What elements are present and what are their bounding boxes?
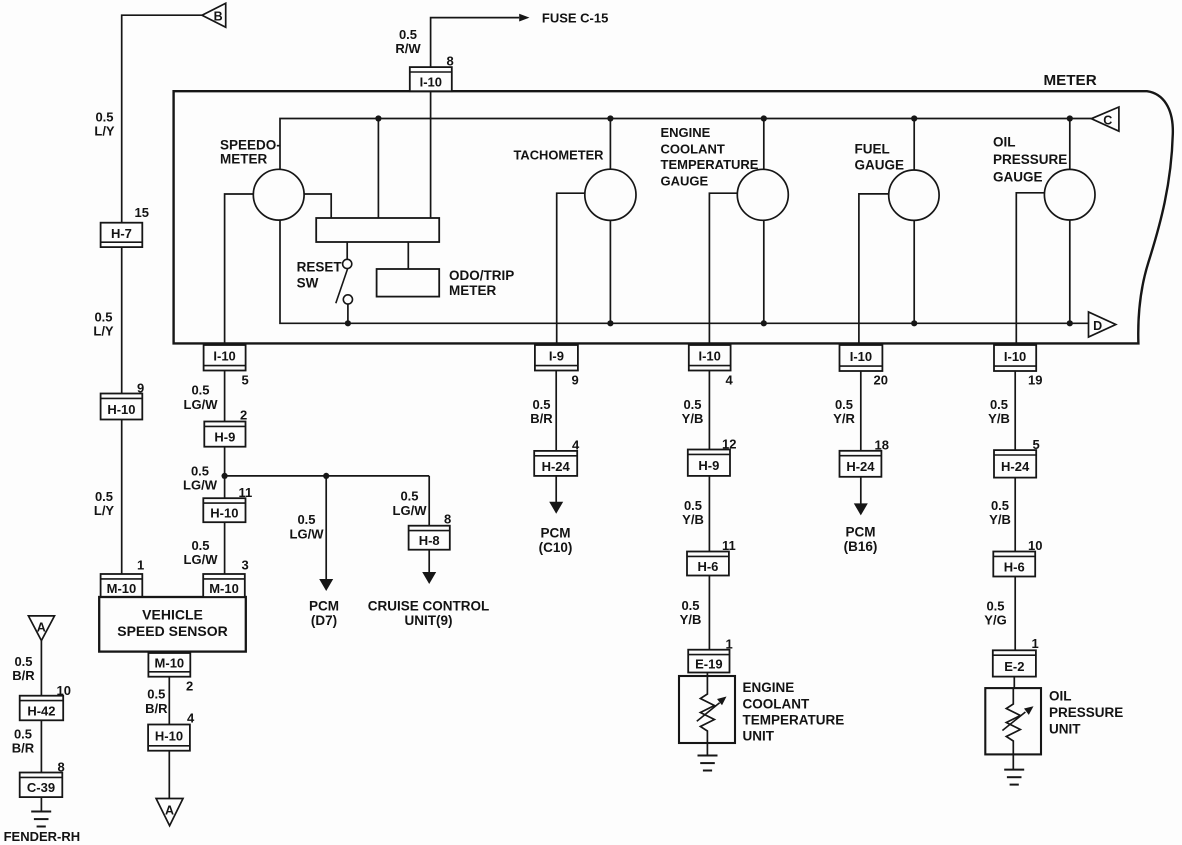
connector H-10 (pin 9)	[101, 394, 143, 420]
wire oil gauge left to I-10 pin 19	[1016, 193, 1044, 345]
svg-text:B/R: B/R	[12, 668, 35, 683]
svg-text:ENGINE: ENGINE	[661, 125, 711, 140]
wire label 0.5 B/R	[12, 654, 35, 683]
wire label 0.5 R/W	[395, 27, 421, 56]
connector I-9 (pin 9)	[535, 345, 578, 371]
arrowhead to PCM (C10)	[549, 502, 563, 514]
arrowhead to cruise control unit	[422, 572, 436, 584]
wire I-10 pin 8 into meter	[430, 91, 432, 218]
svg-text:M-10: M-10	[209, 581, 239, 596]
svg-text:H-42: H-42	[27, 703, 55, 718]
wire label 0.5 Y/B	[682, 498, 704, 527]
wire label 0.5 Y/B	[682, 397, 704, 426]
junction dot bottom bus / tachometer	[607, 320, 613, 326]
wire H-10 pin4 to triangle A	[168, 751, 170, 799]
svg-text:0.5: 0.5	[683, 397, 701, 412]
svg-text:LG/W: LG/W	[290, 526, 325, 541]
wire label 0.5 L/Y	[94, 489, 115, 518]
svg-text:OIL: OIL	[1049, 688, 1072, 703]
arrowhead to FUSE C-15	[519, 14, 529, 22]
label OIL PRESSURE UNIT	[1049, 688, 1123, 736]
svg-text:SW: SW	[297, 275, 319, 290]
svg-text:FUEL: FUEL	[855, 141, 890, 156]
svg-text:LG/W: LG/W	[183, 478, 218, 493]
svg-text:9: 9	[572, 372, 579, 387]
meter drive unit box	[316, 218, 439, 242]
engine coolant temperature unit box	[679, 676, 735, 743]
junction dot bottom bus / fuel gauge	[911, 320, 917, 326]
svg-text:1: 1	[1032, 636, 1039, 651]
wire top bus to drive unit	[377, 119, 379, 219]
svg-text:0.5: 0.5	[532, 397, 550, 412]
svg-text:1: 1	[137, 558, 144, 573]
svg-text:0.5: 0.5	[297, 512, 315, 527]
svg-text:LG/W: LG/W	[184, 552, 219, 567]
svg-text:0.5: 0.5	[191, 463, 209, 478]
wire speedometer left to I-10 pin 5	[225, 194, 254, 345]
svg-text:C: C	[1103, 114, 1112, 128]
svg-text:0.5: 0.5	[684, 498, 702, 513]
speedometer gauge	[253, 169, 304, 220]
wire H-24 to PCM (C10)	[555, 476, 557, 502]
svg-text:0.5: 0.5	[399, 27, 417, 42]
wire label 0.5 B/R	[12, 726, 35, 755]
wire label 0.5 LG/W	[393, 489, 428, 518]
svg-text:ENGINE: ENGINE	[743, 680, 795, 695]
svg-text:15: 15	[135, 205, 149, 220]
junction dot PCM branch	[323, 473, 329, 479]
svg-text:(C10): (C10)	[539, 540, 573, 555]
thermistor (oil pressure sender)	[1002, 688, 1033, 770]
svg-text:A: A	[165, 804, 174, 818]
wire H-6 to E-2	[1014, 577, 1016, 651]
svg-text:3: 3	[242, 558, 249, 573]
wire label 0.5 Y/R	[833, 397, 855, 426]
svg-text:H-24: H-24	[542, 459, 571, 474]
svg-text:I-10: I-10	[1004, 349, 1026, 364]
svg-text:SPEED SENSOR: SPEED SENSOR	[117, 623, 227, 639]
label SPEEDO-METER	[220, 137, 281, 166]
connector H-24 (pin 18)	[840, 451, 882, 477]
wire label 0.5 L/Y	[94, 110, 115, 139]
svg-text:0.5: 0.5	[191, 538, 209, 553]
engine coolant temperature gauge	[737, 169, 788, 220]
wire label 0.5 Y/G	[984, 599, 1006, 628]
connector H-10 (pin 11)	[203, 498, 245, 522]
junction dot top bus / meter drive	[375, 115, 381, 121]
svg-text:METER: METER	[1044, 72, 1097, 89]
svg-text:2: 2	[240, 407, 247, 422]
svg-text:TEMPERATURE: TEMPERATURE	[661, 157, 759, 172]
svg-text:L/Y: L/Y	[93, 324, 114, 339]
svg-text:LG/W: LG/W	[393, 503, 428, 518]
connector I-10 (pin 5)	[204, 345, 246, 371]
svg-text:0.5: 0.5	[95, 489, 113, 504]
svg-text:FUSE C-15: FUSE C-15	[542, 11, 608, 26]
connector C-39 (pin 8)	[20, 773, 63, 798]
svg-text:H-6: H-6	[1004, 559, 1025, 574]
svg-text:H-9: H-9	[214, 429, 235, 444]
wire label 0.5 Y/B	[988, 397, 1010, 426]
label OIL PRESSURE GAUGE	[993, 134, 1067, 184]
svg-text:B: B	[214, 10, 223, 24]
svg-text:I-10: I-10	[420, 75, 442, 90]
connector I-10 (pin 4)	[689, 345, 731, 371]
junction dot bottom bus / oil gauge	[1067, 320, 1073, 326]
svg-text:I-10: I-10	[698, 349, 720, 364]
svg-text:ODO/TRIP: ODO/TRIP	[449, 268, 514, 283]
wire fuel gauge to bottom bus	[913, 220, 915, 323]
svg-text:Y/B: Y/B	[682, 411, 704, 426]
connector H-9 (pin 12)	[688, 450, 730, 476]
svg-text:GAUGE: GAUGE	[993, 169, 1043, 184]
svg-text:H-9: H-9	[698, 458, 719, 473]
svg-text:2: 2	[186, 679, 193, 694]
label RESET SW	[297, 259, 343, 290]
wire drive unit to odo/trip meter	[407, 242, 409, 269]
svg-text:4: 4	[726, 372, 734, 387]
svg-text:H-6: H-6	[697, 559, 718, 574]
junction dot speed signal	[222, 473, 228, 479]
wire junction to H-10 pin 11	[224, 476, 226, 498]
svg-text:Y/R: Y/R	[833, 411, 855, 426]
svg-text:RESET: RESET	[297, 259, 343, 274]
triangle A (to fender ground)	[156, 799, 183, 826]
svg-text:PCM: PCM	[541, 526, 571, 541]
wire top bus to oil gauge	[1069, 119, 1071, 170]
ground coolant temperature unit	[698, 756, 718, 771]
svg-text:0.5: 0.5	[14, 726, 32, 741]
svg-text:Y/B: Y/B	[680, 612, 702, 627]
wire coolant gauge left to I-10 pin 4	[709, 193, 737, 345]
junction dot bottom bus / reset sw	[345, 320, 351, 326]
wire C-39 to ground	[40, 797, 42, 811]
connector M-10 (pin 2)	[148, 653, 190, 677]
wire label 0.5 LG/W	[290, 512, 325, 541]
svg-text:0.5: 0.5	[835, 397, 853, 412]
svg-text:M-10: M-10	[155, 656, 185, 671]
svg-text:20: 20	[874, 372, 888, 387]
wire H-24 to PCM (B16)	[860, 477, 862, 504]
connector M-10 (pin 3)	[203, 574, 245, 597]
junction dot bottom bus / coolant gauge	[761, 320, 767, 326]
svg-text:B/R: B/R	[12, 741, 35, 756]
svg-text:COOLANT: COOLANT	[661, 141, 725, 156]
svg-text:METER: METER	[449, 283, 497, 298]
svg-text:H-10: H-10	[210, 506, 238, 521]
svg-text:0.5: 0.5	[95, 110, 113, 125]
svg-text:0.5: 0.5	[986, 599, 1004, 614]
svg-text:PCM: PCM	[846, 525, 876, 540]
ground FENDER-RH	[31, 812, 51, 827]
connector I-10 (pin 19)	[994, 345, 1036, 371]
wire I-10 pin19 to H-24 pin5	[1014, 371, 1016, 450]
svg-text:E-2: E-2	[1004, 659, 1024, 674]
wire H-8 to cruise control unit	[428, 550, 430, 573]
wire B to H-7	[122, 15, 202, 223]
fuel gauge	[889, 170, 939, 220]
svg-text:0.5: 0.5	[14, 654, 32, 669]
svg-text:TEMPERATURE: TEMPERATURE	[743, 713, 845, 728]
wire A to H-42	[40, 641, 42, 696]
wire label 0.5 L/Y	[93, 309, 114, 338]
svg-text:PCM: PCM	[309, 599, 339, 614]
svg-text:I-10: I-10	[213, 349, 235, 364]
wire H-10 to M-10 pin 3	[224, 522, 226, 574]
wire top bus to coolant gauge	[763, 119, 765, 170]
label FUEL GAUGE	[855, 141, 905, 172]
wire I-9 to H-24	[555, 371, 557, 451]
wire H-6 to E-19	[708, 576, 710, 650]
svg-text:H-10: H-10	[107, 402, 135, 417]
wire top bus	[280, 119, 1091, 170]
arrowhead to PCM (D7)	[319, 579, 333, 591]
svg-text:0.5: 0.5	[147, 687, 165, 702]
svg-text:VEHICLE: VEHICLE	[142, 607, 203, 623]
wire H-10 to M-10	[121, 420, 123, 575]
svg-text:0.5: 0.5	[681, 598, 699, 613]
svg-text:Y/B: Y/B	[989, 512, 1011, 527]
wire H-24 to H-6 pin10	[1014, 478, 1016, 552]
wire M-10 pin2 to H-10 pin4	[168, 677, 170, 725]
svg-text:UNIT(9): UNIT(9)	[405, 613, 453, 628]
svg-text:Y/B: Y/B	[682, 512, 704, 527]
wire reset switch to bottom bus	[347, 304, 349, 323]
svg-text:CRUISE CONTROL: CRUISE CONTROL	[368, 599, 490, 614]
svg-text:19: 19	[1028, 372, 1042, 387]
wire I-10 pin4 to H-9 pin12	[708, 371, 710, 450]
wire oil gauge to bottom bus	[1069, 220, 1071, 323]
svg-text:L/Y: L/Y	[94, 124, 115, 139]
wire H-42 to C-39	[40, 720, 42, 772]
wire tachometer left to I-9 pin 9	[557, 193, 585, 345]
svg-text:UNIT: UNIT	[743, 728, 775, 743]
oil pressure gauge	[1044, 169, 1095, 220]
connector E-2 (pin 1)	[993, 650, 1036, 676]
svg-text:TACHOMETER: TACHOMETER	[514, 148, 605, 163]
wire label 0.5 B/R	[530, 397, 553, 426]
svg-text:4: 4	[187, 710, 195, 725]
oil pressure unit box	[985, 688, 1041, 754]
svg-text:H-24: H-24	[1001, 459, 1030, 474]
wire label 0.5 Y/B	[989, 498, 1011, 527]
svg-text:LG/W: LG/W	[184, 397, 219, 412]
wire top bus to fuel gauge	[913, 119, 915, 171]
svg-text:H-10: H-10	[155, 728, 183, 743]
svg-text:0.5: 0.5	[191, 383, 209, 398]
label ENGINE COOLANT TEMPERATURE UNIT	[743, 680, 845, 743]
wire label 0.5 LG/W	[184, 538, 219, 567]
svg-text:R/W: R/W	[395, 41, 421, 56]
svg-text:E-19: E-19	[695, 656, 722, 671]
svg-text:M-10: M-10	[107, 581, 137, 596]
wire label 0.5 B/R	[145, 687, 168, 716]
svg-text:0.5: 0.5	[94, 309, 112, 324]
svg-text:H-24: H-24	[846, 459, 875, 474]
svg-text:H-7: H-7	[111, 226, 132, 241]
wire label 0.5 Y/B	[680, 598, 702, 627]
wire I-10 pin20 to H-24 pin18	[860, 371, 862, 451]
wire I-10 pin 8 up to fuse branch	[431, 18, 520, 68]
wire H-7 to H-10	[121, 247, 123, 393]
connector H-6 (pin 10)	[993, 552, 1035, 577]
wire fuel gauge left to I-10 pin 20	[859, 194, 889, 345]
arrowhead to PCM (B16)	[854, 503, 868, 515]
connector triangle B	[202, 3, 226, 27]
label PCM (D7)	[309, 599, 339, 629]
svg-text:(B16): (B16)	[844, 539, 878, 554]
connector H-24 (pin 5)	[994, 450, 1036, 478]
svg-text:8: 8	[444, 512, 451, 527]
connector I-10 (pin 8)	[410, 67, 452, 91]
meter box outline	[174, 91, 1173, 343]
svg-text:(D7): (D7)	[311, 613, 337, 628]
wire coolant gauge to bottom bus	[763, 220, 765, 323]
svg-text:0.5: 0.5	[400, 489, 418, 504]
wire junction to cruise branch	[225, 475, 430, 477]
svg-text:COOLANT: COOLANT	[743, 696, 810, 711]
connector H-7	[101, 223, 143, 247]
wire to H-8	[428, 476, 430, 526]
triangle C	[1091, 107, 1119, 131]
svg-text:I-10: I-10	[850, 349, 872, 364]
svg-text:GAUGE: GAUGE	[661, 173, 709, 188]
triangle A (from speed sensor)	[28, 616, 54, 641]
connector M-10 (pin 1)	[101, 574, 143, 597]
label PCM (C10)	[539, 526, 573, 556]
junction dot top bus / coolant gauge	[761, 115, 767, 121]
svg-text:L/Y: L/Y	[94, 503, 115, 518]
wire speedometer right to drive unit	[304, 194, 331, 218]
wire H-9 to junction	[224, 447, 226, 476]
odo/trip meter box	[377, 269, 440, 297]
svg-text:PRESSURE: PRESSURE	[1049, 705, 1123, 720]
svg-text:H-8: H-8	[419, 533, 440, 548]
svg-text:Y/G: Y/G	[984, 613, 1006, 628]
svg-text:FENDER-RH: FENDER-RH	[4, 829, 81, 844]
svg-text:PRESSURE: PRESSURE	[993, 152, 1067, 167]
svg-text:I-9: I-9	[549, 349, 564, 364]
svg-text:0.5: 0.5	[991, 498, 1009, 513]
svg-text:B/R: B/R	[530, 411, 553, 426]
wire label 0.5 LG/W	[184, 383, 219, 412]
label CRUISE CONTROL UNIT(9)	[368, 599, 490, 629]
label PCM (B16)	[844, 525, 878, 555]
wire E-2 to oil pressure unit	[1013, 677, 1015, 689]
junction dot top bus / tachometer	[607, 115, 613, 121]
connector H-8 (pin 8)	[409, 526, 450, 550]
wire top bus to tachometer	[609, 119, 611, 170]
junction dot top bus / oil gauge	[1067, 115, 1073, 121]
svg-text:B/R: B/R	[145, 701, 168, 716]
wire H-9 to H-6 pin11	[708, 476, 710, 552]
wire to PCM (D7)	[325, 476, 327, 580]
svg-text:0.5: 0.5	[990, 397, 1008, 412]
connector H-10 (pin 4)	[148, 725, 190, 751]
svg-text:UNIT: UNIT	[1049, 721, 1081, 736]
svg-text:Y/B: Y/B	[988, 411, 1010, 426]
connector H-6 (pin 11)	[687, 552, 729, 576]
wire tachometer to bottom bus	[609, 220, 611, 323]
reset switch RESET SW	[336, 259, 353, 304]
vehicle speed sensor box	[99, 597, 246, 652]
label ODO/TRIP METER	[449, 268, 514, 298]
svg-text:SPEEDO-: SPEEDO-	[220, 137, 281, 152]
svg-text:5: 5	[242, 372, 249, 387]
ground oil pressure unit	[1004, 770, 1024, 785]
svg-text:METER: METER	[220, 151, 268, 166]
junction dot top bus / fuel gauge	[911, 115, 917, 121]
triangle D	[1089, 312, 1116, 337]
wire drive unit to reset switch	[346, 242, 348, 259]
svg-text:GAUGE: GAUGE	[855, 157, 905, 172]
wire I-10 pin5 to H-9	[224, 371, 226, 422]
svg-text:OIL: OIL	[993, 134, 1016, 149]
connector H-42 (pin 10)	[20, 696, 64, 721]
svg-text:C-39: C-39	[27, 780, 55, 795]
wire bottom bus	[280, 220, 1089, 323]
tachometer gauge	[585, 169, 636, 220]
connector E-19 (pin 1)	[688, 650, 729, 673]
thermistor (coolant temperature sender)	[697, 673, 727, 756]
connector H-9 (pin 2)	[204, 422, 245, 447]
svg-text:A: A	[37, 621, 46, 635]
label ENGINE COOLANT TEMPERATURE GAUGE	[661, 125, 759, 188]
svg-text:D: D	[1093, 319, 1102, 333]
connector I-10 (pin 20)	[840, 345, 883, 371]
connector H-24 (pin 4)	[534, 451, 577, 476]
wire label 0.5 LG/W	[183, 463, 218, 492]
